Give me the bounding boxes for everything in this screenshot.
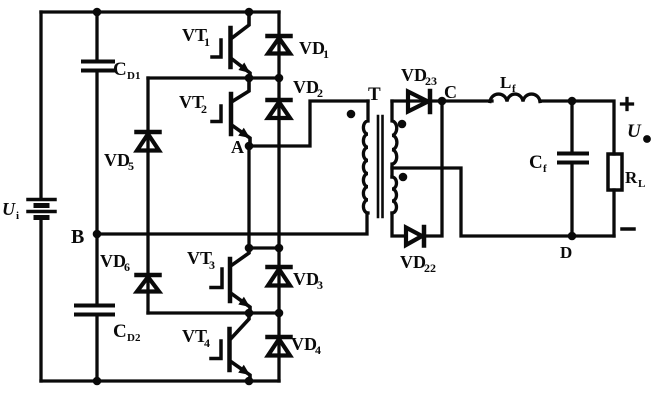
node C bbox=[438, 97, 447, 106]
svg-text:L: L bbox=[638, 178, 645, 190]
polarity dot secondary lower bbox=[399, 173, 408, 182]
wire A to VT3 collector bbox=[247, 146, 250, 248]
diode VD2 bbox=[268, 100, 291, 118]
svg-text:D: D bbox=[560, 243, 572, 262]
node VT4 emitter bbox=[245, 377, 254, 386]
svg-text:VD: VD bbox=[104, 150, 130, 170]
svg-text:6: 6 bbox=[124, 260, 130, 274]
label Lf bbox=[500, 73, 516, 95]
node VD4 cathode bbox=[275, 309, 284, 318]
node Cf tap bbox=[568, 97, 577, 106]
transformer core bbox=[378, 116, 383, 217]
wire Cf top lead bbox=[570, 101, 573, 152]
svg-text:3: 3 bbox=[317, 278, 323, 292]
svg-text:4: 4 bbox=[204, 336, 210, 350]
svg-text:VD: VD bbox=[401, 65, 427, 85]
svg-text:1: 1 bbox=[323, 47, 329, 61]
transistor VT1 bbox=[212, 14, 250, 78]
capacitor CD1 bbox=[83, 62, 113, 71]
wire node B to transformer primary bottom bbox=[97, 213, 367, 234]
node VT1-VT2 junction bbox=[245, 74, 254, 83]
node A bbox=[245, 142, 254, 151]
svg-text:VD: VD bbox=[291, 334, 317, 354]
wire Lf to output plus corner bbox=[540, 101, 614, 154]
svg-text:i: i bbox=[16, 210, 19, 222]
node top rail / CD1 bbox=[93, 8, 102, 17]
diode VD1 bbox=[268, 36, 291, 54]
label VT3 bbox=[187, 248, 215, 272]
wire VD22 cathode up to node C bbox=[426, 101, 442, 236]
diode VD3 bbox=[268, 267, 291, 286]
wire CD1 to B to CD2 bbox=[95, 72, 98, 304]
inductor Lf bbox=[490, 94, 540, 101]
label RL bbox=[625, 168, 645, 190]
label VD22 bbox=[400, 252, 436, 275]
wire antiparallel diode chain bbox=[277, 12, 280, 381]
svg-text:3: 3 bbox=[209, 258, 215, 272]
diode VD4 bbox=[268, 337, 291, 356]
svg-text:VD: VD bbox=[293, 269, 319, 289]
svg-text:5: 5 bbox=[128, 159, 134, 173]
svg-text:U: U bbox=[627, 121, 642, 142]
svg-text:B: B bbox=[71, 226, 84, 248]
svg-text:D2: D2 bbox=[127, 332, 141, 344]
svg-text:U: U bbox=[2, 199, 16, 219]
label VD6 bbox=[100, 251, 130, 274]
svg-text:VD: VD bbox=[100, 251, 126, 271]
node VT1 collector top bbox=[245, 8, 254, 17]
label VD2 bbox=[293, 77, 323, 100]
wire CD1 top lead bbox=[95, 12, 98, 61]
diode VD5 bbox=[137, 132, 160, 151]
label CD1 bbox=[113, 59, 140, 82]
transformer primary winding bbox=[363, 101, 368, 213]
transistor VT4 bbox=[211, 315, 250, 381]
polarity dot secondary upper bbox=[398, 120, 407, 129]
wire VT3 collector row bbox=[249, 246, 279, 249]
node bottom rail / CD2 bbox=[93, 377, 102, 386]
svg-text:22: 22 bbox=[424, 261, 436, 275]
svg-text:f: f bbox=[512, 83, 516, 95]
svg-text:D1: D1 bbox=[127, 70, 140, 82]
svg-text:4: 4 bbox=[315, 343, 321, 357]
label VT2 bbox=[179, 92, 207, 116]
wire center tap to D row bbox=[392, 168, 614, 236]
voltage source Ui bbox=[28, 200, 55, 218]
transformer secondary lower winding bbox=[392, 177, 397, 213]
wire VT1-VT2 junction row bbox=[148, 76, 279, 79]
label VT4 bbox=[182, 326, 210, 350]
label A bbox=[231, 137, 244, 157]
svg-text:f: f bbox=[543, 163, 547, 175]
svg-text:C: C bbox=[113, 59, 127, 80]
svg-text:23: 23 bbox=[425, 74, 437, 88]
node VD3 cathode bbox=[275, 244, 284, 253]
label VD5 bbox=[104, 150, 134, 173]
diode VD23 bbox=[408, 91, 430, 112]
minus sign bbox=[622, 227, 634, 231]
wire node A to transformer primary top bbox=[249, 101, 368, 146]
svg-text:VD: VD bbox=[299, 38, 325, 58]
wire node C to Lf bbox=[442, 99, 492, 102]
label VD3 bbox=[293, 269, 323, 292]
wire clamp branch VD5-VD6 bbox=[146, 78, 149, 313]
wire secondary bottom to VD22 bbox=[392, 213, 406, 236]
label Cf bbox=[529, 152, 547, 175]
capacitor CD2 bbox=[76, 306, 113, 315]
node D bbox=[568, 232, 577, 241]
label C bbox=[444, 82, 457, 102]
label D bbox=[560, 243, 572, 262]
transistor VT3 bbox=[211, 250, 250, 313]
svg-text:C: C bbox=[444, 82, 457, 102]
label T bbox=[368, 84, 381, 105]
node B bbox=[93, 230, 102, 239]
polarity dot primary bbox=[347, 110, 356, 119]
capacitor Cf bbox=[559, 154, 587, 163]
wire CD2 bottom lead bbox=[95, 316, 98, 381]
wire bottom rail bbox=[41, 379, 279, 382]
transistor VT2 bbox=[212, 80, 250, 146]
transformer secondary upper winding bbox=[392, 101, 397, 177]
label VT1 bbox=[182, 25, 210, 49]
wire VT3-VT4 junction row bbox=[148, 311, 279, 314]
svg-text:VD: VD bbox=[400, 252, 426, 272]
svg-text:VD: VD bbox=[293, 77, 319, 97]
node VT3 collector bbox=[245, 244, 254, 253]
diode VD6 bbox=[137, 275, 160, 292]
wire left rail lower bbox=[39, 219, 42, 381]
wire top rail bbox=[41, 10, 279, 13]
resistor RL bbox=[608, 154, 622, 190]
label Uo bbox=[627, 121, 651, 143]
label B bbox=[71, 226, 84, 248]
wire Cf bottom lead bbox=[570, 164, 573, 236]
wire secondary top to node C bbox=[392, 99, 442, 102]
svg-text:T: T bbox=[368, 84, 381, 105]
label CD2 bbox=[113, 321, 141, 344]
label VD23 bbox=[401, 65, 437, 88]
diode VD22 bbox=[406, 227, 424, 246]
svg-text:C: C bbox=[113, 321, 127, 342]
label VD4 bbox=[291, 334, 321, 357]
label Ui bbox=[2, 199, 19, 222]
wire left rail upper bbox=[39, 12, 42, 199]
node VT3 emitter bbox=[245, 309, 254, 318]
svg-text:2: 2 bbox=[317, 86, 323, 100]
svg-text:2: 2 bbox=[201, 102, 207, 116]
svg-text:L: L bbox=[500, 73, 511, 92]
svg-text:A: A bbox=[231, 137, 244, 157]
svg-text:1: 1 bbox=[204, 35, 210, 49]
wire RL bottom lead bbox=[612, 190, 615, 236]
label VD1 bbox=[299, 38, 329, 61]
svg-text:C: C bbox=[529, 152, 543, 173]
plus sign bbox=[622, 99, 633, 110]
node VD1-VD2 junction bbox=[275, 74, 284, 83]
svg-text:R: R bbox=[625, 168, 638, 187]
